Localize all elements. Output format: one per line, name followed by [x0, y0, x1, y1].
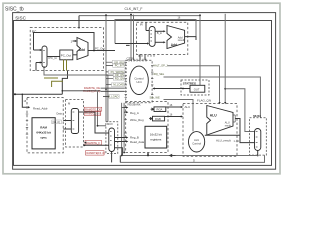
wire adder out: [88, 50, 115, 52]
register RGB box: [153, 116, 165, 121]
mux M4 pill: [109, 128, 115, 152]
label ram out bits box: [52, 120, 62, 124]
svg-text:Control: Control: [192, 141, 201, 145]
wire mux4 out b: [115, 141, 127, 143]
arrow M1 out a: [163, 30, 165, 32]
module box SISC: [14, 21, 272, 166]
wire regs in arrows: [122, 108, 127, 113]
MUX2 dashed box: [66, 100, 84, 148]
wire ram to mux2 a: [63, 120, 71, 122]
wire pc bus top right: [115, 20, 196, 44]
svg-text:HALT_OP_J: HALT_OP_J: [153, 64, 168, 68]
svg-text:Read_data: Read_data: [130, 140, 145, 144]
svg-text:ALU: ALU: [194, 138, 199, 142]
ctrl left label boxes: [108, 60, 124, 86]
svg-text:Reg_A: Reg_A: [130, 111, 139, 115]
wire M1 out a: [155, 30, 164, 32]
svg-text:result: result: [225, 124, 231, 127]
svg-text:SISC_tb: SISC_tb: [5, 7, 24, 13]
wire mux1 out to bus: [115, 148, 123, 156]
wire halt op: [168, 66, 220, 103]
svg-text:Data: Data: [57, 113, 63, 116]
mux M3 pin marks: [256, 132, 258, 148]
wire pc feedback: [34, 33, 95, 51]
svg-text:Read_Addr: Read_Addr: [33, 106, 48, 110]
register PC_Out box: [60, 50, 73, 60]
mux M4 pin marks: [110, 132, 112, 146]
svg-text:ALU: ALU: [210, 113, 217, 117]
arrow regs in a: [126, 106, 128, 108]
node clk stub: [105, 14, 107, 16]
wire regs writeback tap: [147, 153, 149, 156]
arrow halt op: [218, 102, 220, 104]
svg-text:RAMDTE_OE: RAMDTE_OE: [85, 107, 101, 111]
node ram red tap: [62, 90, 64, 92]
wire clk to mux3: [225, 89, 254, 132]
regs pin ticks: [125, 108, 127, 142]
arrow rga in: [151, 108, 155, 110]
ctrl right pin ticks: [151, 66, 153, 95]
ALU control ellipse: [189, 132, 205, 152]
arrow const to adder: [75, 40, 77, 42]
ir bottom pin ticks: [139, 55, 154, 57]
svg-text:REGBANK: REGBANK: [128, 102, 141, 106]
adder Add PC plus 1: [77, 38, 88, 60]
ctrl left labels: [111, 60, 125, 86]
svg-text:SISC: SISC: [15, 16, 26, 21]
ctrl top pin ticks: [129, 59, 146, 62]
mux M2 pin marks: [73, 112, 75, 129]
arrow bus into regs: [170, 154, 176, 156]
svg-text:RGB: RGB: [155, 117, 161, 121]
node bus C: [199, 14, 201, 16]
svg-text:registers: registers: [150, 138, 162, 142]
ctrl left red labels: [83, 86, 100, 93]
label red mux2 box 1: [84, 107, 102, 111]
wire clk down 2: [130, 15, 132, 61]
wire mload left: [103, 95, 109, 97]
ALU dashed box: [183, 104, 237, 157]
wire ram to mux2 b: [63, 128, 71, 130]
register RGA box: [154, 107, 166, 112]
wire mux1 sel left: [98, 91, 107, 126]
mux M0 pin marks: [43, 51, 45, 63]
svg-text:Add: Add: [79, 48, 85, 52]
wire pcout to adder: [73, 54, 77, 56]
svg-text:PC_Out: PC_Out: [61, 54, 71, 58]
arrow statreg to ctrl: [152, 87, 154, 89]
wire ctrl label stubs: [106, 62, 113, 84]
control unit ellipse: [130, 66, 149, 94]
wire mux select drop: [44, 67, 108, 121]
wire mux3 out down: [257, 151, 259, 156]
wire M1 in top: [146, 22, 149, 30]
wire mux M0 in a: [34, 49, 43, 51]
svg-text:RAM: RAM: [40, 126, 47, 130]
MUX1 dashed box: [106, 122, 118, 154]
node read addr corner: [22, 94, 24, 96]
node mux1 sel: [97, 125, 99, 127]
wire rga out: [166, 106, 182, 108]
label M_LOAD box: [109, 95, 119, 99]
wire ir in: [115, 44, 148, 46]
svg-text:RAMDTE_F: RAMDTE_F: [86, 141, 100, 145]
svg-text:ALU: ALU: [185, 105, 191, 109]
wire irq sel: [164, 77, 261, 118]
REGS dashed box: [126, 102, 168, 153]
svg-text:RGA: RGA: [157, 108, 163, 112]
svg-text:Write_Reg: Write_Reg: [130, 118, 144, 122]
label red box C: [86, 151, 105, 155]
svg-text:M_LOAD: M_LOAD: [108, 95, 119, 99]
svg-text:16x32 bit: 16x32 bit: [150, 133, 162, 137]
arrow mux M0 in a: [40, 49, 42, 51]
wire alu out: [235, 119, 254, 143]
ctrl left pin ticks: [125, 63, 127, 98]
wire olive L left: [52, 81, 63, 87]
svg-text:RAMDTE[15..0]: RAMDTE[15..0]: [87, 151, 105, 155]
wire pc clk drop: [78, 16, 80, 28]
node statreg wire: [182, 88, 184, 90]
arrow rgb out: [181, 115, 183, 117]
mux M3 pill: [255, 129, 261, 151]
svg-text:ALU_result: ALU_result: [216, 138, 231, 142]
svg-text:FLAG_QN: FLAG_QN: [197, 98, 211, 102]
RAM dashed box: [27, 98, 63, 153]
arrow mux select: [43, 67, 45, 69]
svg-text:MUX: MUX: [107, 122, 113, 126]
wire mux2 out to mux1: [79, 112, 109, 133]
svg-text:STATREG: STATREG: [183, 81, 197, 85]
arrow regs writeback: [147, 152, 149, 154]
arrow M1 out b: [163, 41, 165, 43]
node clk branch right: [224, 88, 226, 90]
svg-text:sync: sync: [40, 136, 47, 140]
wire red to mux1: [85, 144, 109, 146]
wire const to adder: [73, 40, 76, 42]
node read addr port: [14, 93, 16, 95]
svg-text:IRQ_SEL: IRQ_SEL: [153, 72, 165, 76]
arrow read addr: [28, 106, 30, 108]
svg-text:Unit: Unit: [136, 80, 141, 84]
ctrl right labels: [150, 64, 169, 100]
wire olive pc clk pair: [64, 60, 67, 71]
node red wire: [84, 144, 86, 146]
arrow mux4 out a: [126, 136, 128, 138]
wire clk stub bus: [79, 15, 200, 17]
svg-text:MUX3: MUX3: [253, 114, 261, 118]
memory registers box: [145, 126, 167, 148]
svg-text:Sab_WE: Sab_WE: [150, 96, 161, 100]
wire ctrl down b: [123, 103, 125, 153]
svg-text:CTRL: CTRL: [127, 56, 135, 60]
memory RAM box: [32, 118, 55, 149]
svg-text:1: 1: [71, 39, 73, 43]
svg-text:PC: PC: [32, 30, 37, 34]
svg-text:B_in: B_in: [157, 31, 163, 35]
outer frame: [3, 3, 280, 174]
svg-text:result: result: [178, 38, 185, 42]
arrow mux4 out b: [126, 140, 128, 142]
MUX3 dashed box: [250, 118, 267, 155]
mux M1 ir mux: [149, 27, 155, 47]
svg-text:64Kx32 bit: 64Kx32 bit: [36, 131, 50, 135]
wire olive stub: [44, 77, 58, 79]
mux M2 tall: [71, 109, 78, 134]
svg-text:M_LOAD: M_LOAD: [113, 83, 124, 87]
wire clk down 1: [105, 16, 107, 122]
alu trapezoid: [207, 106, 233, 136]
wire ctrl red in: [62, 88, 124, 91]
wire bus2 tap: [119, 156, 121, 163]
svg-text:CLK_INT_F: CLK_INT_F: [125, 7, 143, 11]
wire mux1 select down: [111, 152, 113, 163]
node ctrl down b: [123, 152, 125, 154]
label red mux2 box 2: [84, 112, 101, 116]
svg-text:1..34: 1..34: [234, 140, 240, 143]
arrow rga out: [181, 106, 183, 108]
testbench box SISC_tb: [13, 13, 276, 170]
wire mux M0 in b: [36, 63, 42, 71]
wire mux4 out a: [115, 137, 127, 139]
arrow red box B: [84, 142, 86, 144]
mux M1 pin marks: [150, 31, 152, 42]
arrow mux M0 in b: [40, 61, 42, 63]
wire bottom bus 2: [120, 155, 264, 162]
wire read addr: [14, 94, 63, 107]
svg-text:IR: IR: [140, 23, 143, 27]
wire alu control out: [205, 134, 240, 136]
PC dashed box: [30, 28, 103, 71]
wire right down statreg: [199, 15, 201, 85]
adder Add result: [167, 26, 185, 49]
arrow regs in b: [126, 111, 128, 113]
arrow alu b: [224, 102, 226, 104]
label red box B: [85, 140, 102, 144]
wire add result out: [185, 37, 196, 40]
node ctrl down a: [121, 155, 123, 157]
register statreg inner box: [190, 85, 205, 92]
node bus B: [130, 14, 132, 16]
wire rgb out: [165, 116, 182, 118]
wire M1 out b: [155, 41, 164, 43]
node red wire cross: [105, 89, 107, 91]
IR dashed box: [137, 22, 188, 54]
wire ctrl down a: [121, 103, 123, 156]
svg-text:Reg_B: Reg_B: [130, 135, 139, 139]
arrow ir in: [147, 42, 149, 44]
wire clk down 3: [133, 15, 135, 61]
svg-text:OUT: OUT: [194, 87, 200, 91]
svg-text:D: D: [193, 159, 195, 163]
wire statreg to ctrl: [154, 88, 191, 90]
mux M0 pc source: [42, 46, 47, 67]
wire ir to ctrl stubs: [140, 55, 145, 61]
node regs writeback: [147, 155, 149, 157]
arrow rgb in: [149, 118, 153, 120]
register STATREG dashed box: [181, 80, 209, 95]
wire right down alu b: [224, 14, 226, 103]
ram pin ticks: [26, 107, 28, 134]
control unit dashed box CTRL: [126, 60, 152, 103]
wire pc down a: [62, 71, 67, 95]
node adder out: [93, 50, 95, 52]
svg-text:[15..0]: [15..0]: [53, 121, 60, 124]
node mux3 out: [257, 155, 259, 157]
alu out pin marks: [233, 115, 235, 122]
wire sab_we out: [164, 100, 194, 132]
wire mux M0 out: [47, 56, 60, 58]
wire bottom bus 1: [122, 155, 257, 157]
node pc clk: [78, 27, 80, 29]
svg-text:PC_Out: PC_Out: [95, 47, 105, 51]
svg-text:Add: Add: [171, 43, 177, 47]
